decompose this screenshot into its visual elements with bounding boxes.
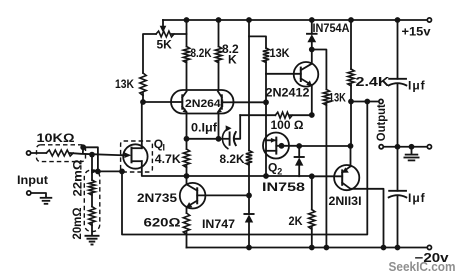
wire Q2 drain to 1N758 xyxy=(298,146,300,157)
junction rail/2K xyxy=(309,245,315,251)
junction emitter-A/0.1uF xyxy=(184,136,190,142)
wire 2N2641 base-B xyxy=(234,101,267,103)
wire 1uF-A down xyxy=(397,84,399,147)
wire 2N735 collector up xyxy=(186,176,188,184)
wire 2N2412 emitter down xyxy=(311,85,313,115)
junction emitter/output leg xyxy=(348,143,354,149)
svg-text:22mΩ: 22mΩ xyxy=(71,159,85,196)
wire output node xyxy=(351,101,379,103)
resistor 8.2K-B xyxy=(215,47,221,63)
transistor 2N735 body xyxy=(180,183,206,209)
wire 8.2K-B to 2N2641 xyxy=(218,61,220,90)
svg-text:13K: 13K xyxy=(115,77,134,91)
wire 2N2412 base xyxy=(266,73,301,75)
wire 13K-C down to -20v rail xyxy=(325,104,327,248)
transistor 2N2412 base bar xyxy=(300,68,302,81)
svg-text:2.4K: 2.4K xyxy=(356,75,390,89)
wire 1uF-B to rail xyxy=(397,196,399,248)
wire jog to 13K-C xyxy=(312,50,327,90)
junction Q2 drain / 1N758 xyxy=(296,143,302,149)
resistor 8.2K-C xyxy=(246,151,252,166)
wire 1N758 to base wire xyxy=(298,166,300,177)
wire gnd stub xyxy=(411,147,413,154)
wire 0.1uF to riser xyxy=(234,115,240,139)
transistor 2N1131 collector diag xyxy=(342,183,350,189)
svg-text:10KΩ: 10KΩ xyxy=(37,131,75,145)
capacitor 1uF-B curved plate xyxy=(389,195,407,197)
transistor 2N2412 body xyxy=(294,62,319,87)
wire 5K right lead xyxy=(172,33,187,35)
resistor 13K-C xyxy=(323,89,329,105)
wire 1N754A to node xyxy=(311,42,313,49)
wire 2N735 emitter down xyxy=(186,207,188,213)
wire 10K to gate xyxy=(70,153,121,155)
terminal output return xyxy=(379,145,383,149)
wire 8.2K-A to 2N2641 xyxy=(186,61,188,90)
svg-text:K: K xyxy=(228,53,237,67)
wire 2N2641 emitter-A down xyxy=(186,114,188,139)
wire feedback loop xyxy=(122,102,367,235)
wire bypass arrow mark xyxy=(91,169,97,174)
op-amp-style dual transistor 2N2641 outline xyxy=(171,90,234,114)
transistor 2N1131 base bar xyxy=(341,170,343,184)
capacitor 0.1uF left plate xyxy=(229,132,231,144)
junction groundrow/gnd xyxy=(409,144,415,150)
wire 8.2K-C down xyxy=(248,164,250,215)
resistor 13K-A xyxy=(140,73,146,96)
transistor 2N2412 emitter xyxy=(301,79,312,86)
resistor 8.2K-A xyxy=(183,47,189,63)
junction emitter-B/0.1uF xyxy=(216,136,222,142)
wire 22mohm to 20mohm xyxy=(91,194,93,207)
svg-text:2N735: 2N735 xyxy=(137,191,177,205)
junction rail/1N747 xyxy=(246,245,252,251)
wire 2.4K to output node xyxy=(350,84,352,102)
terminal output hot xyxy=(379,99,383,103)
transistor Q2 body xyxy=(263,133,289,159)
junction bypass corner xyxy=(95,169,101,175)
svg-text:13K: 13K xyxy=(270,46,290,60)
wire rail to 2.4K xyxy=(350,20,352,69)
wire 20mohm to ground xyxy=(91,223,93,235)
wire bias column x249 xyxy=(248,20,250,151)
wire ground row xyxy=(383,146,427,148)
junction bypass stub xyxy=(80,144,86,150)
2N2641 left base stub xyxy=(171,101,182,103)
wire 2N2641 emitter-B down xyxy=(218,114,220,139)
wire 0.1uF node to 4.7K xyxy=(186,139,188,149)
terminal input return xyxy=(27,191,31,195)
wire rail to 1N754A xyxy=(311,20,313,34)
svg-text:4.7K: 4.7K xyxy=(155,152,181,166)
wire 4.7K bottom xyxy=(186,166,188,177)
junction 22mohm top xyxy=(89,152,95,158)
diode 1N758 cathode bar xyxy=(295,156,304,158)
svg-text:8.2K: 8.2K xyxy=(220,152,245,166)
junction base-B / bias line xyxy=(263,99,269,105)
junction rail/1uF-A xyxy=(395,17,401,23)
2N2641 right emitter arrow xyxy=(218,108,222,112)
wire 2N1131 base xyxy=(312,175,342,177)
svg-text:SeekIC.com: SeekIC.com xyxy=(389,260,456,274)
2N2641 right emitter diag xyxy=(218,107,222,112)
terminal -20v xyxy=(427,245,431,249)
svg-text:2N264I: 2N264I xyxy=(185,98,224,110)
wire rail to 8.2K-A xyxy=(186,20,188,47)
junction rail/2.4K xyxy=(348,17,354,23)
terminal +15v xyxy=(427,18,431,22)
transistor 2N735 emitter diag xyxy=(187,201,198,207)
wire 100ohm to emitter node xyxy=(290,114,312,116)
transistor 2N1131 emitter arrow xyxy=(342,167,348,172)
capacitor 1uF-A curved plate xyxy=(389,83,407,85)
2N2641 right collector diag xyxy=(218,92,222,98)
2N2641 left collector diag xyxy=(182,92,186,98)
capacitor 1uF-A top plate xyxy=(389,78,406,80)
capacitor 0.1uF trimmer arrowhead xyxy=(226,125,232,131)
svg-text:IN758: IN758 xyxy=(262,180,305,194)
dashed box shunt xyxy=(84,170,100,232)
svg-text:2NII3I: 2NII3I xyxy=(329,194,362,208)
wire Q2 drain node east xyxy=(299,145,350,147)
svg-text:620Ω: 620Ω xyxy=(144,216,181,230)
junction emitter/2K node xyxy=(309,112,315,118)
wire groundrow to 1uF-B xyxy=(397,147,399,191)
svg-text:8.2K: 8.2K xyxy=(191,46,212,60)
wire bias line x266 xyxy=(265,102,267,176)
resistor 13K-B xyxy=(263,48,269,63)
diode 1N747 cathode bar xyxy=(244,213,253,215)
svg-text:Input: Input xyxy=(17,173,48,187)
resistor 4.7K xyxy=(183,149,189,168)
junction rail/8.2K-B xyxy=(216,17,222,23)
junction feedback/source node xyxy=(119,169,125,175)
wire +15V top rail xyxy=(163,19,427,21)
dashed box Q1 xyxy=(121,141,153,172)
wire node to 0.1uF xyxy=(219,138,230,140)
capacitor 0.1uF trimmer arrow xyxy=(222,130,227,149)
wire jog to 13K-B xyxy=(249,36,266,48)
junction Q2 drain dot xyxy=(279,143,285,149)
wire -20V rail xyxy=(187,247,428,249)
wire 2N735 base xyxy=(197,194,249,196)
svg-text:Iμf: Iμf xyxy=(408,191,426,205)
transistor Q2 source stub xyxy=(266,150,276,152)
2N2641 right bar xyxy=(221,95,223,108)
capacitor 0.1uF curved plate xyxy=(234,132,236,145)
transistor 2N2412 collector xyxy=(301,50,312,71)
wire Q1 gate inside xyxy=(121,154,125,156)
diode 1N747 triangle xyxy=(245,215,253,223)
resistor 5K xyxy=(156,31,174,37)
transistor 2N735 collector diag xyxy=(187,184,198,190)
ground symbol output xyxy=(405,154,419,156)
junction output/2.4K xyxy=(348,99,354,105)
transistor Q1 body xyxy=(123,144,147,168)
svg-text:Iμf: Iμf xyxy=(408,79,426,93)
svg-text:+15v: +15v xyxy=(402,25,431,39)
junction output/feedback xyxy=(364,99,370,105)
resistor 10K xyxy=(46,150,73,156)
ground symbol shunt xyxy=(85,235,100,237)
terminal input hot xyxy=(27,151,31,155)
wire rail to 8.2K-B xyxy=(218,20,220,47)
2N2641 right base stub xyxy=(222,101,234,103)
wire 2.4K node down to emitter node xyxy=(350,102,352,147)
wire bypass to feedback node xyxy=(98,170,122,172)
wire rail corner to 5K wiper xyxy=(162,20,164,26)
junction zener/collector/13K-C xyxy=(309,47,315,53)
wire input to 10K xyxy=(31,152,47,154)
transistor Q2 gate stub xyxy=(266,139,276,141)
diode 1N754A triangle xyxy=(307,34,316,42)
wire 620ohm to rail corner xyxy=(186,232,188,248)
potentiometer 5K wiper arrow xyxy=(160,26,167,33)
svg-text:2: 2 xyxy=(277,167,282,177)
wire 13K-B to base node xyxy=(265,61,267,102)
wire 5K left lead down to 13K-A xyxy=(143,34,156,73)
transistor Q2 gate arrow xyxy=(271,138,276,143)
wire 2N1131 collector to rail xyxy=(350,189,383,248)
transistor 2N1131 emitter diag xyxy=(342,166,350,172)
wire rail to 1uF-A xyxy=(397,20,399,79)
svg-text:IN747: IN747 xyxy=(202,217,235,231)
junction rail/1uF-B xyxy=(395,245,401,251)
junction 2N735 base/1N747 xyxy=(246,193,252,199)
transistor 2N2412 emitter arrow xyxy=(306,80,312,86)
svg-text:2K: 2K xyxy=(289,214,303,228)
wire common node y176 xyxy=(187,175,312,177)
capacitor 1uF-B top plate xyxy=(389,190,406,192)
wire 0.1uF node xyxy=(187,138,219,140)
resistor 100ohm xyxy=(275,112,292,118)
svg-text:Output: Output xyxy=(374,104,388,141)
resistor 2K xyxy=(309,210,315,230)
wire 1N747 to rail xyxy=(248,223,250,248)
ground symbol input xyxy=(40,197,53,199)
wire 2N2641 base-A xyxy=(143,101,171,103)
junction Q1 drain / 2N2641 base-A xyxy=(140,99,146,105)
transistor Q2 channel bar xyxy=(275,138,277,154)
svg-text:100 Ω: 100 Ω xyxy=(271,118,304,132)
junction rail/13K-C xyxy=(324,245,330,251)
svg-text:5K: 5K xyxy=(157,38,173,52)
junction 4.7K/2N735 collector xyxy=(184,173,190,179)
svg-text:0.Iμf: 0.Iμf xyxy=(191,121,218,135)
junction rail/1N754A xyxy=(309,17,315,23)
wire 2K to rail xyxy=(311,227,313,248)
diode 1N754A cathode bar xyxy=(307,33,317,35)
svg-text:20mΩ: 20mΩ xyxy=(70,207,84,239)
junction groundrow/1uF xyxy=(395,144,401,150)
svg-text:IN754A: IN754A xyxy=(313,21,350,35)
svg-text:13K: 13K xyxy=(329,91,346,105)
wire 22mohm top lead xyxy=(91,155,93,180)
wire input return xyxy=(31,193,46,197)
2N2641 left bar xyxy=(181,95,183,108)
2N2641 left emitter diag xyxy=(182,107,186,112)
diode 1N758 triangle xyxy=(295,158,303,166)
wire 2N1131 emitter up xyxy=(350,146,352,166)
wire 2N1131 base node down to 2K xyxy=(311,176,313,209)
transistor Q1 gate arrow xyxy=(124,152,131,158)
junction rail/collector xyxy=(381,245,387,251)
junction bias/Q2 source xyxy=(263,173,269,179)
transistor 2N1131 body xyxy=(334,165,359,190)
transistor Q1 drain stub xyxy=(132,147,142,149)
svg-text:2N2412: 2N2412 xyxy=(266,86,310,100)
wire Q1 drain up xyxy=(141,102,143,148)
junction rail/13K-B column xyxy=(246,17,252,23)
terminal ground row right xyxy=(427,145,431,149)
dashed box 10K xyxy=(37,145,86,162)
wire Q1 source down xyxy=(142,161,187,176)
junction rail/8.2K-A xyxy=(184,17,190,23)
svg-text:Q: Q xyxy=(268,161,277,175)
wire shunt bypass xyxy=(83,147,98,171)
transistor 2N735 base bar xyxy=(196,188,198,203)
resistor 2.4K xyxy=(348,69,354,86)
transistor Q2 drain xyxy=(276,145,299,147)
transistor Q1 source stub xyxy=(132,160,142,162)
resistor 22mohm xyxy=(89,180,95,195)
resistor 20mohm xyxy=(89,207,95,226)
wire 13K-A to node xyxy=(142,93,144,102)
transistor 2N735 emitter arrow xyxy=(186,202,192,208)
wire riser to 100ohm xyxy=(240,114,275,116)
2N2641 left emitter arrow xyxy=(183,108,187,112)
transistor Q1 channel bar xyxy=(131,148,133,163)
junction 2N1131 base node xyxy=(309,173,315,179)
wire 10K bypass stub xyxy=(82,147,84,153)
resistor 620ohm xyxy=(183,213,189,234)
